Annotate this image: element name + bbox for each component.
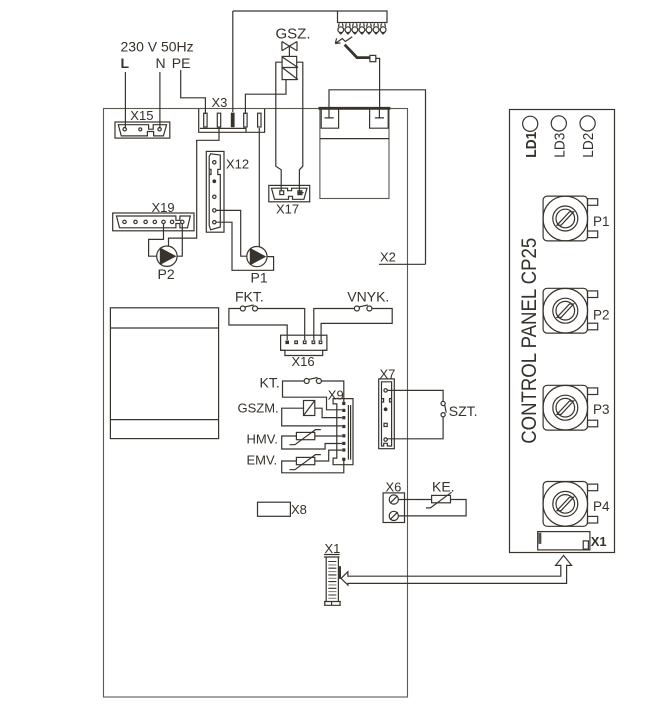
svg-text:X9: X9 [328, 388, 344, 403]
svg-text:CONTROL PANEL CP25: CONTROL PANEL CP25 [518, 238, 541, 444]
svg-text:X3: X3 [212, 95, 228, 110]
wire X6 to KE loop [398, 500, 466, 516]
gas valve GSZ [282, 42, 297, 57]
svg-text:P4: P4 [593, 499, 610, 514]
wire coil to X3 pin4 [245, 80, 286, 114]
svg-text:X17: X17 [276, 202, 299, 217]
connector X9 [328, 388, 353, 465]
pump P1 [247, 247, 268, 286]
svg-text:KT.: KT. [260, 375, 280, 391]
main board outline [104, 109, 408, 698]
svg-text:P3: P3 [593, 402, 610, 417]
LED LD2 [580, 116, 595, 131]
connector X19 [113, 200, 194, 231]
connector X12 [206, 151, 249, 232]
wire SZT to X7 pin4 [388, 417, 444, 439]
LED LD1 [523, 116, 538, 131]
wire PE to X3 pin1 [181, 70, 206, 114]
svg-text:FKT.: FKT. [235, 289, 264, 305]
connector X17 [269, 185, 310, 216]
wire VNYK to X16 [314, 309, 392, 341]
svg-text:HMV.: HMV. [247, 432, 278, 447]
wire FKT to X16 [229, 309, 305, 341]
svg-text:P2: P2 [158, 266, 175, 282]
wire X3 pin3 up to burner line [232, 11, 234, 112]
connector X15 [115, 108, 170, 138]
switch FKT [240, 306, 245, 311]
wire X7 pin1 to SZT [388, 390, 444, 401]
ignition electrode [345, 45, 370, 58]
wire X12 pin4 to pump P1 [216, 210, 247, 256]
svg-text:X1: X1 [325, 541, 341, 556]
relay block [110, 308, 218, 439]
svg-text:P1: P1 [251, 270, 268, 286]
sensor KE [432, 495, 451, 502]
svg-text:X15: X15 [130, 108, 153, 123]
svg-text:SZT.: SZT. [449, 403, 478, 419]
wire HMV to X9 pins 5,6 [282, 436, 342, 449]
wire X3 pin2 to pump P2 top [169, 128, 220, 247]
svg-text:X16: X16 [292, 354, 315, 369]
wire X19 pin5 to pump P2 [149, 224, 164, 257]
ignition transformer [319, 108, 391, 199]
potentiometer P3 [543, 385, 610, 430]
wire L to X15 [124, 72, 126, 129]
wire coil to X17 left pin [276, 62, 282, 191]
wire burner top line [233, 10, 338, 12]
LED LD3 [551, 116, 566, 131]
potentiometer P1 [543, 196, 610, 241]
wire X2 [379, 263, 426, 265]
wire EMV to X9 pins 7,8 [282, 450, 344, 473]
connector X6 [383, 480, 404, 523]
wire X12 pin5 to pump P1 return [216, 222, 274, 270]
switch SZT [441, 401, 445, 405]
connector X1 (board) [324, 541, 341, 605]
switch KT [304, 379, 309, 384]
burner [338, 11, 388, 23]
svg-text:X2: X2 [380, 250, 396, 265]
thermistor EMV [296, 457, 314, 464]
svg-text:LD3: LD3 [551, 133, 568, 158]
svg-text:X12: X12 [226, 157, 249, 172]
wire GSZM to X9 pins 3,4 [282, 408, 342, 426]
connector X16 [281, 335, 327, 369]
svg-text:LD1: LD1 [523, 132, 540, 158]
connector X8 [258, 502, 291, 516]
gas valve coil [282, 56, 297, 79]
wire X3 pin5 down to pump P1 [258, 128, 260, 247]
svg-text:N: N [156, 55, 166, 71]
ribbon cable arrow to panel [341, 555, 572, 585]
wire electrode to transformer [376, 58, 380, 109]
pressure switch GSZM [304, 401, 315, 416]
wire transformer left terminal to X2 drop [329, 90, 426, 264]
potentiometer P4 [543, 482, 610, 527]
svg-text:LD2: LD2 [580, 133, 597, 158]
pump P2 [157, 246, 177, 282]
wire N to X15 [159, 72, 161, 129]
svg-text:GSZ.: GSZ. [276, 26, 311, 43]
wire coil to X17 right pin [297, 62, 303, 191]
wire KT to X9 pins 1,2 [283, 381, 344, 410]
ignition spark arrow [335, 37, 352, 44]
svg-text:EMV.: EMV. [247, 453, 278, 468]
connector X7 [379, 367, 396, 449]
svg-text:230 V 50Hz: 230 V 50Hz [121, 39, 194, 55]
potentiometer P2 [543, 288, 610, 333]
svg-text:P2: P2 [593, 307, 610, 322]
svg-text:GSZM.: GSZM. [238, 401, 279, 416]
control panel CP25 outline [510, 110, 615, 553]
wire X19 pin7 to pump P2 [177, 224, 182, 257]
svg-text:PE: PE [172, 55, 191, 71]
svg-text:X6: X6 [386, 480, 402, 495]
thermistor HMV [296, 432, 314, 439]
flame nozzles [338, 23, 386, 34]
svg-text:X1: X1 [591, 534, 607, 549]
svg-text:X8: X8 [291, 502, 307, 517]
switch VNYK [354, 306, 359, 311]
svg-text:L: L [121, 55, 130, 71]
connector X3 [199, 95, 265, 132]
svg-text:P1: P1 [593, 214, 610, 229]
connector X1 (panel) [538, 532, 607, 550]
svg-text:VNYK.: VNYK. [347, 289, 389, 305]
